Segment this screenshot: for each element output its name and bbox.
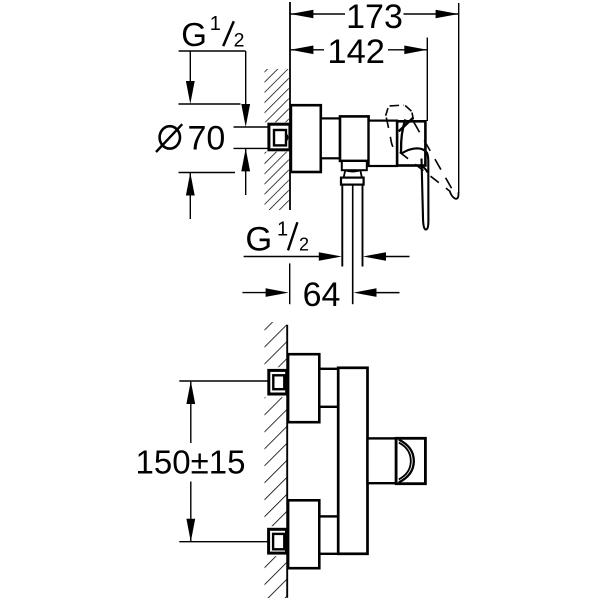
escutcheon flange (side view) bbox=[291, 105, 321, 172]
lever front edge bbox=[401, 119, 405, 153]
dia 70 extension top bbox=[179, 103, 241, 105]
hatch clearance around union square bbox=[258, 122, 288, 151]
dimension 150+-15 extension bottom bbox=[179, 541, 268, 543]
dia 70 up arrow with stem bbox=[186, 173, 195, 196]
cartridge block bbox=[340, 116, 369, 160]
svg-text:2: 2 bbox=[234, 29, 245, 51]
inlet stub top bbox=[319, 369, 338, 407]
wall hatch (front view) bbox=[265, 322, 287, 598]
union inner square bbox=[274, 130, 286, 145]
dimension 142 line bbox=[290, 49, 427, 51]
extension line at wall for 64 bbox=[289, 263, 291, 304]
dimension 64 bbox=[242, 292, 266, 294]
leader of G 1/2 middle with arrow to hose bbox=[244, 256, 319, 258]
lever blade with hump (solid, pointing down) bbox=[401, 148, 428, 229]
svg-text:G: G bbox=[245, 221, 272, 259]
lever alternate position (dashed) bbox=[386, 105, 459, 199]
dia 70 text: diameter symbol bbox=[160, 126, 180, 148]
shower outlet block bbox=[342, 161, 367, 170]
end cap (side view) bbox=[397, 121, 425, 165]
dimension 150+-15 extension top bbox=[179, 380, 268, 382]
svg-text:70: 70 bbox=[188, 119, 226, 157]
dimension 150+-15 arrows bbox=[186, 381, 195, 404]
hose nut bevel bbox=[344, 170, 346, 177]
union square top inner bbox=[273, 375, 284, 389]
end cap (front view) bbox=[396, 438, 425, 483]
leader limb to thread (down arrow right) bbox=[245, 51, 247, 123]
leader limb to escutcheon dia (down arrow left) bbox=[189, 51, 191, 100]
hatch clearance around union squares (front view) bbox=[264, 367, 285, 397]
64 right arrow bbox=[354, 288, 377, 297]
union square (top view, behind wall) bbox=[269, 124, 290, 150]
hose outer walls bbox=[341, 185, 343, 267]
lever seen end-on arcs bbox=[399, 440, 414, 483]
dimension 142 arrows bbox=[290, 46, 313, 55]
mixer body (front view) bbox=[338, 368, 367, 554]
thread extension lines (union square) bbox=[234, 126, 269, 128]
dia 70 extension bottom bbox=[179, 172, 236, 174]
cap corner arc bbox=[419, 166, 427, 173]
union square bottom (front view) bbox=[269, 529, 287, 553]
dimension 150+-15 line bbox=[190, 381, 192, 443]
escutcheon bottom (front view) bbox=[288, 500, 319, 568]
svg-text:64: 64 bbox=[303, 276, 341, 314]
svg-text:2: 2 bbox=[299, 235, 309, 255]
svg-text:G: G bbox=[181, 16, 207, 53]
underline of G 1/2 top bbox=[179, 50, 246, 52]
svg-text:142: 142 bbox=[327, 33, 385, 71]
hose nut band bbox=[341, 178, 364, 185]
svg-text:173: 173 bbox=[346, 0, 403, 36]
svg-text:1: 1 bbox=[210, 13, 221, 35]
escutcheon top (front view) bbox=[288, 354, 319, 422]
svg-text:150±15: 150±15 bbox=[136, 444, 246, 481]
dimension 173 arrows bbox=[290, 10, 313, 19]
outlet dome arc bbox=[345, 170, 361, 171]
hose centerline bbox=[352, 185, 354, 305]
union square bottom inner bbox=[273, 534, 284, 549]
extension line right of 173 bbox=[458, 3, 460, 192]
union square top (front view) bbox=[269, 370, 287, 394]
dimension 173 line bbox=[290, 13, 458, 15]
thread up arrow with stem bbox=[241, 148, 250, 171]
neck 1 bbox=[321, 118, 340, 158]
wall face line + extension (top view) bbox=[289, 2, 291, 210]
arrow from right to hose bbox=[363, 252, 386, 261]
wall hatch (top view) bbox=[265, 69, 289, 210]
svg-text:1: 1 bbox=[277, 219, 288, 241]
cartridge neck (front view) bbox=[368, 438, 397, 483]
inlet stub bottom bbox=[319, 516, 338, 553]
union inner arc bbox=[286, 134, 288, 142]
neck 2 bbox=[369, 121, 398, 166]
extension line right of 142 bbox=[426, 38, 428, 122]
wall face line (front view) bbox=[286, 325, 288, 598]
lever top edge stroke bbox=[399, 118, 413, 131]
